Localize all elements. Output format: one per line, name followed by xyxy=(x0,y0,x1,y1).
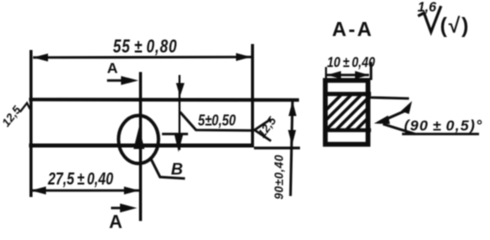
section arrow top xyxy=(107,79,130,81)
dimension 55±0,80 left arrow xyxy=(33,54,48,62)
shelf line xyxy=(402,133,479,136)
leader diagonal to shelf xyxy=(383,124,415,134)
section cut line A-A xyxy=(139,72,142,221)
vertical dimension line 90±0,40 xyxy=(291,101,293,196)
up arrow xyxy=(289,101,297,116)
roughness check mark xyxy=(418,6,441,32)
dimension 55±0,80 right arrow xyxy=(236,53,251,61)
svg-text:5±0,50: 5±0,50 xyxy=(198,111,236,129)
part outline: top edge with right extension xyxy=(29,98,299,102)
svg-text:55 ± 0,80: 55 ± 0,80 xyxy=(113,37,177,57)
groove arrow top (down) xyxy=(176,83,185,97)
groove feature line xyxy=(179,75,181,150)
right arrow xyxy=(124,187,139,195)
detail circle B xyxy=(119,116,159,164)
leader curl xyxy=(401,101,412,114)
svg-text:90±0,40: 90±0,40 xyxy=(274,154,286,199)
dimension 55±0,80 line xyxy=(33,56,251,59)
arrow inside circle xyxy=(134,127,145,149)
section A-A outline xyxy=(325,80,368,144)
leader diagonal with arrow xyxy=(382,110,407,121)
down arrow xyxy=(288,130,296,146)
svg-text:A-A: A-A xyxy=(332,19,374,41)
section arrow bottom xyxy=(111,207,128,209)
bottom extension line xyxy=(254,147,300,150)
dimension 10±0,40 line xyxy=(327,74,369,77)
dimension 27,5±0,40 line xyxy=(31,189,139,192)
svg-text:12,5: 12,5 xyxy=(256,115,279,141)
svg-text:(√): (√) xyxy=(440,15,470,38)
part outline: left edge / extension line xyxy=(30,50,33,197)
part outline: right edge / extension line xyxy=(251,44,254,147)
svg-text:10 ± 0,40: 10 ± 0,40 xyxy=(327,54,376,70)
interior line top xyxy=(323,92,371,96)
svg-text:A: A xyxy=(107,60,118,77)
svg-text:27,5 ± 0,40: 27,5 ± 0,40 xyxy=(47,170,113,189)
dimension 10±0,40 extension lines xyxy=(325,67,327,80)
left arrow xyxy=(31,187,46,195)
part outline: bottom edge xyxy=(29,144,254,148)
svg-text:12,5: 12,5 xyxy=(0,104,24,130)
leader 5±0,50 xyxy=(180,112,252,131)
roughness check right face xyxy=(255,119,272,141)
angle leader reference line xyxy=(370,98,409,99)
hatching xyxy=(306,94,392,130)
groove arrow bottom (down) xyxy=(174,133,184,152)
leader to label B xyxy=(150,157,185,179)
svg-text:В: В xyxy=(171,161,183,179)
ledge line xyxy=(162,133,188,136)
interior line bottom xyxy=(323,128,371,132)
svg-text:(90 ± 0,5)°: (90 ± 0,5)° xyxy=(404,118,483,135)
svg-text:1,6: 1,6 xyxy=(418,0,437,15)
svg-text:A: A xyxy=(109,211,122,232)
